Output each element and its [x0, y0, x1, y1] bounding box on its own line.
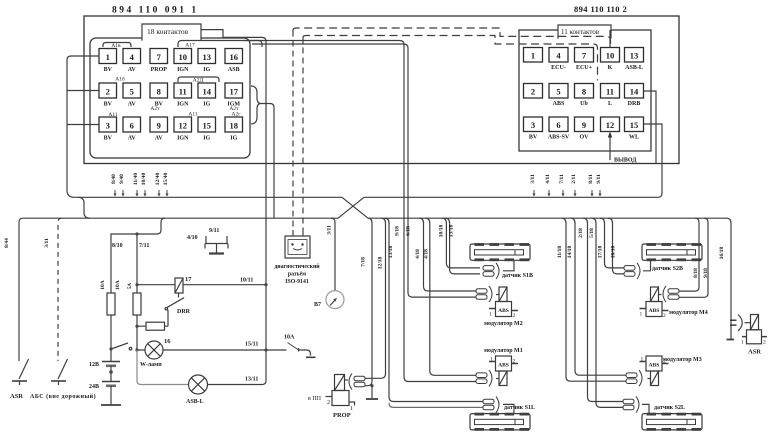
svg-text:14: 14 — [630, 87, 639, 97]
wire from X1 label box down middle panel bus — [201, 30, 266, 350]
sensor S1R stub — [503, 261, 514, 271]
wire pin1 to left bus — [67, 56, 99, 60]
svg-text:13: 13 — [203, 52, 212, 62]
connector X1 pin 7 — [150, 49, 168, 74]
connector X1 pin 12 — [174, 117, 192, 142]
svg-text:3/11: 3/11 — [530, 174, 536, 184]
connector X1 pin 15 — [198, 117, 216, 142]
svg-text:10: 10 — [606, 51, 615, 61]
ECU bottom long wire right segment to pin15 drop — [364, 124, 662, 197]
connector X2 pin 14 — [625, 84, 644, 108]
svg-text:ABS: ABS — [498, 308, 509, 314]
svg-text:ABS: ABS — [649, 363, 660, 369]
svg-text:16: 16 — [230, 52, 239, 62]
connector X2 pin 15 — [625, 117, 644, 141]
ABS offroad switch stem — [58, 381, 60, 385]
wire 12/18 to PROP pin1 — [365, 218, 386, 378]
wire 11/18 to modulator M3 — [562, 218, 627, 381]
svg-text:17: 17 — [185, 276, 192, 283]
modulator M1 plug — [476, 370, 492, 386]
svg-text:ASR: ASR — [748, 349, 761, 356]
svg-text:ECU+: ECU+ — [576, 65, 593, 71]
warning lamp 16 — [145, 341, 163, 359]
wire pin2 to left bus — [67, 90, 99, 92]
svg-text:DRB: DRB — [628, 101, 641, 107]
junction dot lamp left — [135, 348, 138, 351]
svg-text:AV: AV — [128, 136, 137, 142]
ASR pin ticks — [742, 336, 767, 338]
svg-text:6: 6 — [130, 121, 134, 131]
connector X1 pin 4 — [123, 49, 141, 74]
svg-text:13/18: 13/18 — [449, 224, 455, 237]
connector X1 pin 18 — [225, 117, 243, 142]
svg-text:12/18: 12/18 — [378, 256, 384, 269]
ECU bottom wire label 9/40 — [119, 174, 125, 197]
svg-text:12: 12 — [179, 121, 188, 131]
svg-text:ВЫВОД: ВЫВОД — [614, 158, 637, 164]
diagnostic K/L dashed verticals — [293, 31, 303, 231]
ECU bottom wire label 3/11 — [530, 174, 536, 196]
svg-text:18: 18 — [230, 121, 239, 131]
svg-text:6: 6 — [556, 120, 560, 130]
connector X1 pin 17 — [225, 83, 243, 108]
chassis ground symbol — [205, 243, 228, 245]
svg-text:BV: BV — [104, 102, 113, 108]
svg-text:9: 9 — [157, 121, 161, 131]
svg-text:8: 8 — [582, 87, 586, 97]
svg-text:А2т: А2т — [150, 106, 160, 112]
wire fuse F1 to battery — [110, 315, 112, 349]
svg-text:2/18: 2/18 — [578, 228, 584, 238]
diagnostic connector box — [285, 236, 310, 258]
ASR wire prongs — [730, 320, 737, 325]
switch 10A blade — [288, 343, 299, 350]
connector X2 pin 4 — [549, 48, 568, 72]
modulator M4 valve — [651, 287, 659, 302]
ASR switch contact bar — [12, 380, 27, 382]
wire fuse F2 down — [136, 315, 138, 350]
S-jog from bottom wire to lower rail — [78, 197, 90, 218]
svg-text:10: 10 — [179, 52, 188, 62]
svg-text:1: 1 — [106, 52, 110, 62]
vertical wire from brace down to rail — [273, 108, 275, 219]
svg-text:8/44: 8/44 — [4, 238, 10, 248]
svg-text:AV: AV — [128, 102, 137, 108]
ECU bottom wire label 15/40 — [163, 172, 169, 196]
svg-text:датчик S1L: датчик S1L — [504, 405, 535, 411]
svg-text:9/11: 9/11 — [596, 174, 602, 184]
battery 12V cell — [102, 361, 120, 363]
svg-text:7/11: 7/11 — [139, 243, 149, 249]
ASR solenoid box — [747, 330, 762, 344]
sensor S2L stub — [642, 404, 649, 413]
modulator M1 solenoid box — [496, 356, 512, 371]
wire 9/18 to modulator M4 — [679, 218, 708, 297]
wire from brace to vertical — [261, 104, 274, 108]
connector X1 pin 5 — [123, 83, 141, 108]
svg-text:8/40: 8/40 — [111, 174, 117, 184]
svg-text:10А: 10А — [284, 335, 295, 341]
svg-text:IG: IG — [203, 67, 210, 73]
modulator M4 plug — [663, 286, 679, 302]
wire lamp row — [137, 349, 266, 351]
svg-text:модулятор М2: модулятор М2 — [484, 321, 523, 327]
ECU bottom wire label 10/40 — [141, 172, 147, 196]
junction dot bus 15/11 — [264, 348, 267, 351]
svg-text:K: K — [608, 65, 613, 71]
svg-text:9/40: 9/40 — [119, 174, 125, 184]
connector X1 pin 6 — [123, 117, 141, 142]
svg-text:17: 17 — [230, 87, 239, 97]
PROP ground continuation — [371, 386, 373, 398]
svg-text:5А: 5А — [128, 283, 133, 290]
wire 13/18b to sensor S1R — [445, 218, 480, 274]
svg-text:1: 1 — [531, 51, 535, 61]
horizontal fuse branch wire — [137, 325, 168, 327]
svg-text:6/18: 6/18 — [406, 226, 412, 236]
svg-text:15/11: 15/11 — [245, 342, 258, 348]
svg-text:2: 2 — [763, 340, 766, 346]
svg-text:А1в: А1в — [111, 43, 121, 49]
svg-text:модулятор М1: модулятор М1 — [484, 348, 523, 354]
svg-text:датчик S1В: датчик S1В — [502, 273, 533, 279]
svg-text:14/18: 14/18 — [567, 245, 573, 258]
svg-text:А11: А11 — [188, 112, 198, 118]
connector X1 pin 8 — [150, 83, 168, 108]
svg-text:PROP: PROP — [333, 412, 351, 419]
connector X1 pin 16 — [225, 49, 243, 74]
svg-text:IG: IG — [230, 136, 237, 142]
svg-text:3: 3 — [531, 120, 535, 130]
relay 17 box — [175, 278, 183, 293]
relay feed junction dot — [135, 283, 138, 286]
wire 13/18 to sensor S1L — [385, 218, 484, 401]
svg-text:ASB: ASB — [228, 67, 240, 73]
wire 14/18 to modulator M3 — [571, 218, 627, 375]
svg-text:2/11: 2/11 — [571, 174, 577, 184]
svg-text:9/18: 9/18 — [395, 226, 401, 236]
svg-text:AV: AV — [155, 136, 164, 142]
ABS offroad switch contact bar — [51, 380, 66, 382]
sensor S1R bar — [470, 243, 530, 261]
junction dot bus 10/11 — [264, 283, 267, 286]
diagnostic connector wire solid ends — [293, 230, 303, 236]
svg-text:разъём: разъём — [288, 272, 306, 278]
svg-text:А2г: А2г — [232, 112, 242, 118]
connector X1 pin 2 — [99, 83, 117, 108]
svg-text:5: 5 — [130, 87, 134, 97]
group bracket A17 over pins 10,13,16 — [178, 41, 262, 48]
wire 4/18 to modulator M2 — [419, 218, 476, 291]
sensor S2R plug — [624, 263, 640, 279]
svg-text:11/18: 11/18 — [557, 246, 563, 258]
svg-text:13: 13 — [630, 51, 639, 61]
crossover X diagonals — [338, 197, 368, 218]
connector X2 pin 1 — [524, 48, 543, 63]
wire 10/18 to sensor S1R — [442, 218, 480, 268]
wire 8/44 ASR switch feed — [19, 218, 23, 361]
connector X2 11-pin box — [519, 30, 651, 151]
svg-text:А11: А11 — [108, 112, 118, 118]
connector X2 pin 11 — [601, 84, 620, 108]
sensor S2R stub — [643, 261, 651, 271]
svg-text:14: 14 — [203, 87, 212, 97]
chassis ground mid wires — [206, 236, 227, 244]
junction dot distribution/7-11 — [135, 232, 138, 235]
connector X2 pin 9 — [575, 117, 594, 141]
ASR switch stem — [19, 381, 21, 385]
ASR valve body — [751, 315, 759, 330]
PROP valve body — [335, 375, 345, 391]
svg-text:9: 9 — [582, 120, 586, 130]
wire inner vertical down (to M2) — [252, 44, 476, 297]
svg-text:WL: WL — [629, 135, 639, 141]
connector X2 pin 13 — [625, 48, 644, 72]
PROP pin 2 tick — [326, 396, 333, 398]
svg-text:16: 16 — [164, 338, 171, 345]
group bracket A2d over pins 11,14 — [178, 77, 219, 82]
sensor S2R bar — [642, 243, 702, 261]
battery switch blade — [111, 343, 128, 349]
svg-text:10/11: 10/11 — [240, 278, 253, 284]
svg-text:12/40: 12/40 — [155, 172, 161, 185]
svg-text:9/11: 9/11 — [209, 228, 219, 234]
svg-text:894 110 110 2: 894 110 110 2 — [574, 4, 627, 14]
diagnostic connector contacts — [291, 243, 293, 245]
connector X1 pin 13 — [198, 49, 216, 74]
svg-text:10/40: 10/40 — [141, 172, 147, 185]
svg-text:АБС (вне дорожный): АБС (вне дорожный) — [30, 393, 96, 400]
svg-text:2: 2 — [513, 313, 516, 319]
battery ground bar — [101, 404, 121, 406]
svg-text:2: 2 — [663, 313, 666, 319]
svg-text:W-ламп: W-ламп — [140, 362, 162, 368]
svg-text:ASB-L: ASB-L — [186, 399, 204, 405]
svg-text:ABS: ABS — [498, 363, 509, 369]
wire 8/18 to modulator M4 — [679, 218, 699, 291]
connector X2 pin 2 — [524, 84, 543, 99]
sensor S1L bar — [470, 413, 530, 431]
svg-text:L: L — [608, 101, 612, 107]
svg-text:15/40: 15/40 — [163, 172, 169, 185]
svg-text:IGN: IGN — [177, 67, 189, 73]
svg-text:BV: BV — [104, 136, 113, 142]
svg-text:А2Д: А2Д — [193, 78, 204, 84]
feed bend from rail to fuse distribution — [157, 218, 165, 234]
ECU bottom long wire left segment — [74, 196, 342, 198]
svg-text:1: 1 — [489, 312, 492, 318]
ECU bottom wire label 2/11 — [571, 174, 577, 196]
svg-text:ISO-9141: ISO-9141 — [285, 279, 309, 285]
ECU bottom wire label 8/11 — [588, 174, 594, 196]
wire 7/18 to PROP and ground — [365, 218, 372, 386]
svg-text:4/10: 4/10 — [187, 235, 198, 241]
svg-text:2: 2 — [106, 87, 110, 97]
sensor S2L plug — [623, 396, 639, 412]
modulator M1 valve — [499, 371, 507, 386]
svg-text:5/18: 5/18 — [589, 228, 595, 238]
svg-text:15: 15 — [630, 120, 639, 130]
svg-text:8/10: 8/10 — [112, 243, 123, 249]
svg-text:894 110 091 1: 894 110 091 1 — [112, 6, 199, 16]
wire pin3 to left bus — [67, 124, 99, 126]
svg-text:в ПП: в ПП — [308, 396, 322, 402]
svg-text:8: 8 — [157, 87, 161, 97]
svg-text:BV: BV — [529, 135, 538, 141]
svg-text:4/11: 4/11 — [545, 174, 551, 184]
ECU bottom wire label 8/40 — [111, 174, 117, 197]
fuse distribution wire — [111, 234, 157, 293]
svg-text:10/18: 10/18 — [438, 224, 444, 237]
ECU bottom wire label 7/11 — [559, 174, 565, 196]
ECU bottom wire label 12/40 — [155, 172, 161, 196]
ECU bottom wire label 4/11 — [545, 174, 551, 196]
svg-text:AV: AV — [128, 67, 137, 73]
connector X2 pin 8 — [575, 84, 594, 108]
svg-text:13/11: 13/11 — [245, 377, 258, 383]
svg-text:17/18: 17/18 — [598, 245, 604, 258]
svg-text:DRR: DRR — [177, 309, 191, 315]
junction dot battery mid — [109, 370, 113, 374]
connector X2 pin 3 — [524, 117, 543, 141]
svg-text:модулятор М4: модулятор М4 — [669, 310, 708, 316]
ECU main box 894 110 091 1 — [84, 16, 679, 164]
connector X1 pin 9 — [150, 117, 168, 142]
PROP pin 1 tick — [349, 402, 355, 406]
modulator M4 solenoid box — [646, 302, 662, 317]
fuse F2 — [133, 293, 141, 315]
modulator M3 plug — [626, 370, 642, 386]
modulator M3 solenoid box — [646, 356, 662, 371]
svg-text:2: 2 — [531, 87, 535, 97]
svg-text:12В: 12В — [89, 362, 99, 368]
svg-text:ASB-L: ASB-L — [625, 65, 643, 71]
svg-text:10А: 10А — [115, 280, 121, 290]
svg-text:18 контактов: 18 контактов — [147, 27, 189, 36]
modulator M2 plug — [476, 286, 492, 302]
svg-text:IGN: IGN — [177, 102, 189, 108]
modulator M2 valve — [499, 287, 507, 302]
wire 17/18 to sensor S2R — [600, 218, 624, 268]
svg-text:ABS-SV: ABS-SV — [548, 135, 570, 141]
junction dot battery top — [109, 347, 112, 350]
PROP plug — [349, 373, 365, 389]
svg-text:4/18: 4/18 — [415, 249, 421, 259]
connector X1 label box "18 контактов" — [142, 24, 201, 40]
modulator M3 valve — [651, 371, 659, 386]
svg-text:А17: А17 — [185, 43, 195, 49]
sensor S1L plug — [483, 396, 499, 412]
brace pins 17,18 — [251, 86, 261, 124]
svg-text:15: 15 — [203, 121, 212, 131]
L-line dashed — [303, 36, 598, 81]
wire 7/11 to relay 17 — [137, 284, 175, 286]
svg-text:13/18: 13/18 — [388, 245, 394, 258]
svg-text:диагностический: диагностический — [274, 263, 320, 270]
wire 1/18 to modulator M1 — [425, 218, 476, 375]
svg-text:датчик S2L: датчик S2L — [654, 405, 685, 411]
sensor S1R plug — [483, 263, 499, 279]
svg-text:8/18: 8/18 — [693, 268, 699, 278]
svg-text:11/40: 11/40 — [133, 173, 139, 185]
svg-text:18/18: 18/18 — [611, 245, 617, 258]
relay 17 internal diagonal — [175, 278, 183, 293]
svg-text:16/18: 16/18 — [719, 246, 725, 259]
wire 18/18 to sensor S2R — [608, 218, 624, 274]
svg-text:7/18: 7/18 — [361, 257, 367, 267]
svg-text:В7: В7 — [314, 302, 321, 308]
svg-text:11: 11 — [179, 87, 187, 97]
ECU bottom wire label 11/40 — [133, 173, 139, 197]
svg-text:ASR: ASR — [10, 393, 23, 400]
connector X2 pin 10 — [601, 48, 620, 72]
lower harness rail right segment — [368, 217, 727, 219]
connector X2 pin 5 — [549, 84, 568, 108]
wire pin14 down to box edge — [644, 91, 656, 164]
relay 17 stub — [178, 293, 180, 298]
wire pin10 stub up — [609, 30, 611, 47]
svg-text:BV: BV — [104, 67, 113, 73]
group bracket A1v over pins 1,4 — [103, 43, 131, 48]
wire 16/18 to ASR valve — [727, 218, 732, 339]
svg-text:датчик S2В: датчик S2В — [652, 266, 683, 272]
svg-text:10А: 10А — [100, 280, 106, 290]
PROP wire to valve — [345, 379, 349, 381]
svg-text:2: 2 — [663, 359, 666, 365]
switch 10A wire from bus — [266, 349, 287, 351]
svg-text:4/18: 4/18 — [424, 249, 430, 259]
svg-text:ECU-: ECU- — [551, 65, 566, 71]
svg-text:2: 2 — [327, 400, 330, 406]
ASB-L lamp wire left — [137, 350, 189, 385]
wire 2/18 to sensor S2L — [583, 218, 623, 401]
switch 10A contact tick — [298, 348, 300, 352]
svg-text:IGN: IGN — [177, 136, 189, 142]
svg-text:11: 11 — [606, 87, 614, 97]
battery 24V cell — [102, 381, 120, 383]
svg-text:1: 1 — [741, 340, 744, 346]
svg-text:2: 2 — [513, 359, 516, 365]
connector X2 pin 12 — [601, 117, 620, 132]
sensor S1L stub — [503, 404, 514, 413]
ABS offroad switch blade — [58, 359, 68, 379]
wire from A17 bracket down (to M1) — [244, 41, 476, 382]
pin12 diagnostic arrow — [609, 137, 611, 160]
svg-text:Ub: Ub — [580, 101, 588, 107]
svg-text:А2т: А2т — [229, 106, 239, 112]
svg-text:IG: IG — [203, 102, 210, 108]
sensor S2L bar — [642, 413, 702, 431]
wire lamp to bus 13/11 — [208, 350, 267, 385]
svg-text:7/11: 7/11 — [559, 174, 565, 184]
ECU bottom wire label 9/11 — [596, 174, 602, 196]
K-line dashed — [293, 28, 611, 48]
switch 10A output step — [299, 350, 311, 356]
connector X1 pin 3 — [99, 117, 117, 142]
wire 15/18 stub to sensor S1L second prong — [389, 403, 483, 407]
wire 3/11 ABS offroad switch feed (dashed) — [58, 218, 62, 361]
svg-text:9/18: 9/18 — [703, 268, 709, 278]
svg-text:1: 1 — [640, 312, 643, 318]
connector X2 label box "11 контактов" — [558, 25, 611, 38]
svg-text:А1б: А1б — [115, 76, 125, 83]
horizontal fuse — [146, 322, 165, 330]
ASR plug arc — [738, 315, 742, 332]
svg-text:24В: 24В — [89, 384, 99, 390]
svg-text:3/11: 3/11 — [327, 225, 333, 235]
wire 3/11 to gauge B7 — [331, 218, 335, 290]
svg-text:модулятор М3: модулятор М3 — [663, 357, 702, 363]
